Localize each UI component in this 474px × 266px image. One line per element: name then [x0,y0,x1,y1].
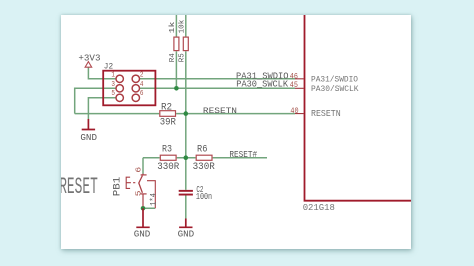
svg-text:RESET: RESET [59,174,98,201]
svg-text:10k: 10k [179,19,187,33]
svg-text:1k: 1k [169,21,177,34]
svg-text:4: 4 [140,81,144,89]
svg-text:39R: 39R [160,117,176,128]
svg-text:6: 6 [136,167,144,173]
svg-text:PA31/SWDIO: PA31/SWDIO [311,74,358,84]
svg-text:RESETN: RESETN [203,106,237,116]
svg-text:GND: GND [80,132,97,143]
svg-text:45: 45 [290,80,298,90]
svg-text:R4: R4 [169,53,177,63]
svg-text:5: 5 [111,90,115,98]
svg-text:1: 1 [111,72,115,80]
svg-text:100n: 100n [196,191,212,202]
svg-text:PB1: PB1 [112,177,123,197]
svg-text:RESETN: RESETN [311,109,341,119]
svg-text:021G18: 021G18 [303,203,335,213]
svg-text:2: 2 [140,72,144,80]
svg-text:330R: 330R [157,161,179,172]
svg-text:R2: R2 [161,102,172,113]
svg-text:PA30_SWCLK: PA30_SWCLK [236,79,288,90]
svg-text:+3V3: +3V3 [78,52,100,63]
svg-text:R3: R3 [162,144,172,155]
svg-text:R5: R5 [179,53,187,62]
svg-text:R6: R6 [197,144,208,155]
svg-text:GND: GND [178,229,195,240]
svg-text:330R: 330R [193,161,215,172]
svg-text:40: 40 [290,106,298,116]
svg-text:PA30/SWCLK: PA30/SWCLK [311,84,359,94]
svg-text:J2: J2 [104,62,113,72]
svg-text:6: 6 [140,90,144,98]
svg-text:RESET#: RESET# [229,149,257,160]
svg-text:3: 3 [111,81,115,89]
svg-text:GND: GND [134,229,151,240]
svg-text:5: 5 [136,191,144,197]
svg-text:1*4: 1*4 [149,193,159,206]
